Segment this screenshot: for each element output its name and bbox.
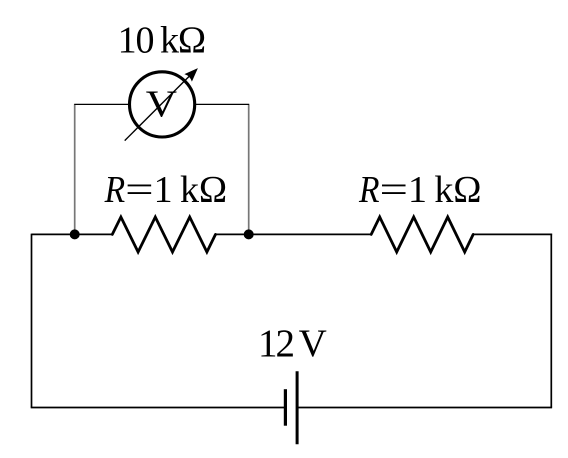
voltmeter U1 circle: [130, 72, 195, 137]
node A junction dot (left): [70, 229, 80, 239]
wire: top-right horizontal segment: [473, 233, 552, 235]
resistor R1 zigzag: [112, 217, 215, 252]
wire: voltmeter left stub: [74, 103, 129, 105]
battery V1 short plate (negative): [284, 389, 287, 426]
voltmeter U1 arrow shaft: [125, 75, 191, 141]
wire: voltmeter branch left vertical: [74, 104, 76, 234]
wire: top-left horizontal segment: [32, 233, 113, 235]
svg-text:10 kΩ: 10 kΩ: [118, 20, 207, 62]
wire: left vertical side: [31, 234, 33, 408]
svg-text:R=1 kΩ: R=1 kΩ: [104, 169, 227, 211]
battery V1 long plate (positive): [296, 371, 299, 444]
resistor R2 zigzag: [371, 217, 473, 252]
voltmeter U1 arrowhead: [184, 68, 198, 82]
wire: voltmeter right stub: [196, 103, 250, 105]
node B junction dot (right): [244, 229, 254, 239]
wire: bottom-right horizontal segment: [297, 407, 552, 409]
wire: right vertical side: [550, 234, 552, 408]
wire: bottom-left horizontal segment: [31, 407, 286, 409]
svg-text:R=1 kΩ: R=1 kΩ: [358, 169, 481, 211]
wire: voltmeter branch right vertical: [248, 104, 250, 234]
wire: top-middle horizontal segment: [216, 233, 372, 235]
svg-text:12 V: 12 V: [258, 322, 327, 365]
